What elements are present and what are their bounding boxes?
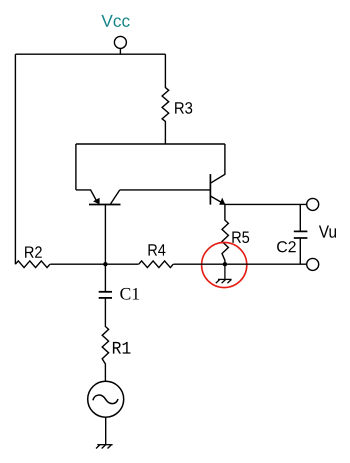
capacitor C2 bbox=[294, 204, 308, 264]
source V1 (AC) bbox=[88, 381, 124, 417]
wire left rail bbox=[14, 54, 16, 264]
wire left drop bbox=[75, 144, 77, 190]
annotation red circle bbox=[202, 242, 247, 287]
Vcc terminal bbox=[114, 36, 126, 54]
label C2 bbox=[277, 241, 296, 252]
resistor R1 bbox=[102, 298, 108, 381]
label R1 bbox=[113, 342, 131, 354]
terminal output bottom bbox=[307, 258, 319, 270]
ground (bottom) bbox=[96, 445, 113, 449]
junction dot left bbox=[103, 262, 107, 266]
transistor Q1 (left, PNP) bbox=[76, 190, 121, 264]
label C1 bbox=[120, 288, 139, 300]
ground (under R5) bbox=[216, 264, 232, 283]
wire mid rail bbox=[76, 143, 225, 145]
resistor R3 bbox=[162, 54, 169, 144]
capacitor C1 bbox=[99, 264, 112, 298]
terminal output top bbox=[307, 198, 319, 210]
resistor R2 bbox=[15, 261, 50, 268]
wire source to ground bbox=[105, 417, 107, 445]
label R2 bbox=[25, 246, 42, 258]
wire top rail bbox=[15, 53, 165, 55]
resistor R5 bbox=[222, 204, 228, 264]
label R5 bbox=[232, 232, 249, 244]
wire R4 to C2 bbox=[173, 263, 306, 265]
label R4 bbox=[148, 244, 165, 255]
wire base link bbox=[120, 189, 211, 191]
junction dot right bbox=[223, 262, 227, 266]
label Vu bbox=[319, 226, 336, 238]
label R3 bbox=[175, 102, 192, 114]
label Vcc bbox=[101, 15, 129, 27]
wire emitter to output bbox=[225, 203, 307, 205]
wire R2 to node bbox=[50, 263, 139, 265]
transistor Q2 (right, NPN) bbox=[210, 144, 225, 205]
resistor R4 bbox=[139, 261, 174, 268]
